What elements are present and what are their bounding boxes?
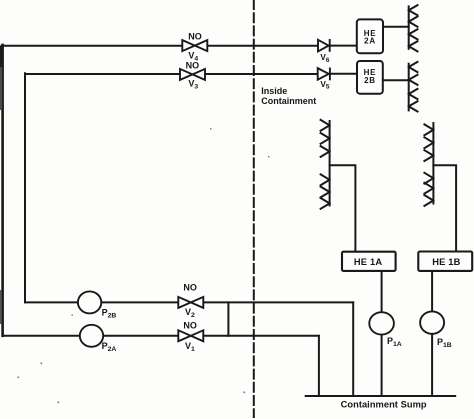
- wire V6 to HE 2A: [330, 45, 358, 47]
- wire pump P1A to sump: [381, 335, 383, 396]
- svg-text:NO: NO: [188, 31, 202, 41]
- check valve V5: [318, 68, 330, 81]
- svg-text:2A: 2A: [364, 37, 376, 46]
- spray header nozzles middle right bank: [424, 123, 433, 206]
- valve V4: [182, 40, 207, 51]
- svg-text:NO: NO: [183, 283, 197, 293]
- wire HE 1B outlet to pump P1B: [431, 271, 433, 312]
- valve V3: [180, 69, 205, 80]
- svg-text:Containment Sump: Containment Sump: [341, 399, 427, 409]
- wire V3 to V5: [205, 73, 318, 75]
- check valve V6: [318, 39, 330, 52]
- wire middle right spray elbow to HE 1B: [433, 165, 456, 251]
- valve V2: [178, 297, 203, 308]
- wire P2A suction segment: [3, 335, 80, 337]
- wire HE 2B outlet to spray: [383, 79, 409, 81]
- pump P1A: [369, 312, 394, 334]
- wire V1 discharge to elbow: [203, 335, 319, 337]
- svg-text:NO: NO: [186, 60, 200, 70]
- svg-text:2B: 2B: [364, 76, 376, 85]
- pump P2B: [78, 291, 101, 313]
- wire pump P1B to sump: [431, 334, 433, 396]
- wire outer left vertical: [1, 45, 4, 336]
- svg-text:NO: NO: [183, 321, 197, 331]
- wire cross-connect junction: [227, 302, 229, 335]
- wire V5 to HE 2B: [330, 73, 358, 75]
- wire P2B to V2: [101, 301, 178, 303]
- svg-text:Inside: Inside: [261, 86, 287, 96]
- spray header nozzles top right upper: [409, 5, 418, 51]
- wire V2 discharge to elbow: [203, 301, 353, 303]
- wire P2A to V1: [103, 335, 178, 337]
- wire containment sump top line: [306, 395, 456, 397]
- wire top line left segment (V4 supply): [2, 45, 183, 47]
- wire V2 line downcomer to sump: [352, 302, 354, 396]
- pump P1B: [420, 311, 444, 333]
- containment boundary dashed line: [253, 0, 255, 417]
- wire V1 line downcomer to sump: [318, 336, 320, 396]
- wire P2B suction segment: [25, 301, 78, 303]
- heat exchanger HE 1B: [418, 252, 472, 271]
- heat exchanger HE 2A: [357, 19, 383, 53]
- svg-text:Containment: Containment: [261, 96, 316, 106]
- wire HE 2A outlet to spray: [383, 26, 409, 28]
- heat exchanger HE 1A: [342, 252, 396, 271]
- spray header nozzles middle left bank: [321, 120, 330, 209]
- wire middle left spray elbow to HE 1A: [330, 165, 356, 252]
- pump P2A: [80, 325, 103, 347]
- wire second line left segment (V3 supply): [25, 73, 180, 75]
- spray header nozzles top right lower: [409, 62, 418, 112]
- wire HE 1A outlet to pump P1A: [381, 271, 383, 312]
- wire V4 to V6: [207, 45, 318, 47]
- valve V1: [178, 330, 203, 341]
- svg-text:HE 1B: HE 1B: [432, 257, 460, 267]
- svg-text:HE 1A: HE 1A: [354, 257, 382, 267]
- wire inner left vertical: [24, 73, 26, 302]
- heat exchanger HE 2B: [357, 61, 383, 94]
